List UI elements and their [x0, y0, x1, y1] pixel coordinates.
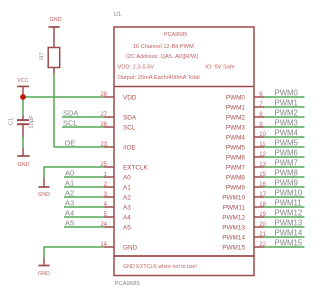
svg-text:PWM15: PWM15	[222, 245, 245, 252]
pin 11 PWM5 (right)	[226, 142, 266, 152]
svg-text:GND: GND	[18, 162, 30, 168]
pin 10 PWM4 (right)	[226, 132, 267, 142]
svg-text:A4: A4	[123, 215, 131, 222]
svg-text:#OE: #OE	[123, 145, 136, 152]
wire net OE (pin 23 to R7)	[54, 146, 104, 148]
pin 19 PWM12 (right)	[222, 212, 266, 222]
supply VCC symbol	[17, 78, 29, 97]
svg-text:PWM2: PWM2	[226, 115, 246, 122]
pin 18 PWM11 (right)	[223, 202, 267, 212]
svg-text:SCL: SCL	[123, 125, 136, 132]
svg-text:PWM6: PWM6	[226, 155, 246, 162]
svg-text:PWM6: PWM6	[275, 149, 298, 158]
svg-text:PWM5: PWM5	[275, 139, 299, 148]
svg-text:PWM1: PWM1	[275, 99, 298, 108]
pin 12 PWM6 (right)	[226, 152, 267, 162]
svg-text:PWM7: PWM7	[226, 165, 246, 172]
wire net PWM14	[264, 236, 305, 238]
ground (EXTCLK)	[38, 178, 50, 199]
svg-text:PCA9685: PCA9685	[115, 281, 141, 287]
svg-text:PWM12: PWM12	[275, 209, 303, 218]
svg-text:PWM10: PWM10	[275, 189, 303, 198]
svg-text:EXTCLK: EXTCLK	[123, 165, 149, 172]
pin 24 A5 (left)	[100, 222, 131, 232]
wire net PWM15	[264, 246, 305, 248]
svg-text:A0: A0	[65, 168, 74, 177]
svg-text:VCC: VCC	[17, 78, 28, 84]
svg-text:PWM1: PWM1	[226, 105, 246, 112]
svg-text:OE: OE	[65, 138, 76, 147]
wire net PWM7	[264, 166, 305, 168]
svg-text:PWM9: PWM9	[275, 179, 298, 188]
svg-text:PWM14: PWM14	[275, 229, 303, 238]
pin 5 A4 (left)	[104, 212, 132, 222]
svg-text:IO: 5V Safe: IO: 5V Safe	[205, 65, 234, 71]
pin 26 SCL (left)	[100, 122, 136, 132]
pin 21 PWM14 (right)	[222, 232, 266, 242]
svg-text:SDA: SDA	[123, 115, 137, 122]
pin 28 VDD (left)	[100, 92, 137, 102]
svg-text:PWM10: PWM10	[222, 195, 245, 202]
wire net PWM13	[264, 226, 305, 228]
wire net PWM1	[264, 106, 305, 108]
svg-text:PWM8: PWM8	[275, 169, 298, 178]
svg-text:PWM13: PWM13	[275, 219, 303, 228]
pin 3 A2 (left)	[104, 192, 132, 202]
svg-text:Output: 25mA Each/400mA Total: Output: 25mA Each/400mA Total	[118, 75, 200, 81]
wire net PWM6	[264, 156, 305, 158]
pin 8 PWM2 (right)	[226, 112, 264, 122]
wire VDD net (VCC to pin 28)	[23, 96, 104, 98]
svg-text:PWM13: PWM13	[222, 225, 245, 232]
wire VCC to C1 (vertical)	[22, 97, 24, 116]
svg-text:A1: A1	[123, 185, 131, 192]
wire net PWM9	[264, 186, 305, 188]
svg-text:GND: GND	[38, 192, 50, 198]
ground (top, above R7)	[49, 17, 62, 47]
wire net PWM10	[264, 196, 305, 198]
wire net PWM4	[264, 136, 305, 138]
wire net A5	[64, 226, 104, 228]
svg-text:GND: GND	[38, 271, 50, 277]
wire C1 to ground	[22, 137, 24, 148]
resistor R7	[40, 48, 60, 74]
svg-text:A5: A5	[65, 218, 74, 227]
svg-text:PWM8: PWM8	[226, 175, 246, 182]
wire net A2	[64, 196, 104, 198]
svg-text:PWM0: PWM0	[275, 89, 299, 98]
wire net PWM11	[264, 206, 305, 208]
svg-text:A5: A5	[123, 225, 131, 232]
wire R7 to OE net (vertical)	[53, 74, 55, 148]
svg-text:A3: A3	[65, 198, 74, 207]
pin 7 PWM1 (right)	[226, 102, 264, 112]
wire EXTCLK net	[44, 167, 104, 178]
pin 17 PWM10 (right)	[222, 192, 266, 202]
svg-text:10µF: 10µF	[29, 115, 35, 129]
pin 22 PWM15 (right)	[222, 242, 266, 252]
pin 2 A1 (left)	[104, 182, 132, 192]
junction dot node VCC/VDD	[20, 94, 26, 100]
wire net A3	[64, 206, 104, 208]
svg-text:U1: U1	[114, 12, 122, 18]
svg-text:R7: R7	[40, 52, 46, 60]
wire net PWM12	[264, 216, 305, 218]
pin 13 PWM7 (right)	[226, 162, 267, 172]
svg-text:PWM12: PWM12	[222, 215, 245, 222]
pin 1 A0 (left)	[104, 172, 132, 182]
pin 14 GND (left)	[100, 242, 137, 252]
svg-text:PWM5: PWM5	[226, 145, 246, 152]
wire net PWM0	[264, 96, 305, 98]
ground (below C1)	[17, 148, 29, 168]
wire net A1	[64, 186, 104, 188]
svg-text:PWM3: PWM3	[275, 119, 298, 128]
svg-text:PWM3: PWM3	[226, 125, 246, 132]
svg-text:PWM11: PWM11	[275, 199, 302, 208]
svg-text:PWM2: PWM2	[275, 109, 298, 118]
svg-text:PWM7: PWM7	[275, 159, 298, 168]
svg-text:PWM15: PWM15	[275, 239, 303, 248]
svg-text:GND: GND	[123, 245, 138, 252]
ground (pin 14)	[38, 258, 50, 277]
wire net PWM2	[264, 116, 305, 118]
svg-text:A4: A4	[65, 208, 74, 217]
svg-text:PWM9: PWM9	[226, 185, 246, 192]
svg-text:SDA: SDA	[63, 108, 78, 117]
wire net SDA	[62, 116, 104, 118]
svg-text:A1: A1	[65, 178, 74, 187]
pin 9 PWM3 (right)	[226, 122, 264, 132]
wire net PWM8	[264, 176, 305, 178]
pin 23 #OE (left)	[100, 142, 135, 152]
pin 15 PWM8 (right)	[226, 172, 267, 182]
wire net A4	[64, 216, 104, 218]
wire net A0	[64, 176, 104, 178]
svg-text:GND: GND	[50, 17, 62, 23]
svg-text:PWM4: PWM4	[226, 135, 246, 142]
wire net SCL	[62, 126, 104, 128]
svg-text:C1: C1	[9, 118, 15, 126]
svg-text:GND EXTCLK when not in use!: GND EXTCLK when not in use!	[123, 264, 197, 270]
capacitor C1	[9, 115, 35, 137]
pin 27 SDA (left)	[100, 112, 137, 122]
svg-text:A2: A2	[123, 195, 131, 202]
svg-text:SCL: SCL	[63, 118, 78, 127]
pin 6 PWM0 (right)	[226, 92, 264, 102]
pin 25 EXTCLK (left)	[100, 162, 148, 172]
pin 16 PWM9 (right)	[226, 182, 267, 192]
svg-text:A3: A3	[123, 205, 131, 212]
svg-text:A0: A0	[123, 175, 131, 182]
svg-text:A2: A2	[65, 188, 74, 197]
svg-text:16 Channel 12-Bit PWM: 16 Channel 12-Bit PWM	[133, 44, 194, 50]
wire GND net (pin 14)	[44, 247, 104, 258]
svg-text:VDD: VDD	[123, 95, 137, 102]
wire net PWM5	[264, 146, 305, 148]
svg-text:PWM11: PWM11	[223, 205, 246, 212]
svg-text:VDD: 2.3-5.5V: VDD: 2.3-5.5V	[118, 65, 155, 71]
pin 4 A3 (left)	[104, 202, 132, 212]
IC U1 PCA9685 body	[114, 27, 254, 276]
svg-text:PWM14: PWM14	[222, 235, 245, 242]
pin 20 PWM13 (right)	[222, 222, 266, 232]
IC U1 header title text	[118, 32, 235, 81]
svg-text:PCA9685: PCA9685	[164, 32, 188, 38]
svg-text:PWM0: PWM0	[226, 95, 246, 102]
svg-text:I2C Address: 1[A5..A0][R/W]: I2C Address: 1[A5..A0][R/W]	[126, 54, 198, 60]
svg-text:PWM4: PWM4	[275, 129, 299, 138]
wire net PWM3	[264, 126, 305, 128]
